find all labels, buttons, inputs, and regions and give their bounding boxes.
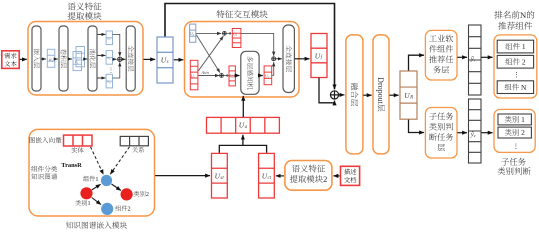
title: top-N recommended components [494, 11, 502, 19]
inner stack: U_t (red) bottom-left [190, 60, 198, 90]
svg-text:R: R [409, 95, 413, 100]
svg-text:ci: ci [75, 60, 78, 65]
cell row: entity embedding (red) [64, 135, 93, 146]
svg-text:sn: sn [107, 79, 111, 85]
wire: U_s -> multiply top (horizontal) [196, 32, 221, 34]
layer box: embedding layer [32, 26, 41, 91]
label: component 2 node [115, 205, 121, 210]
wire: s2 to adder [113, 58, 117, 60]
arrow: U_s -> feature interaction module [174, 59, 184, 61]
svg-text:Ut: Ut [191, 74, 195, 80]
svg-text:N: N [519, 83, 527, 92]
label: component classification knowledge graph (2 lines) [31, 166, 37, 172]
vector stack: y_r prediction [469, 25, 482, 95]
title: feature interaction module [216, 10, 224, 18]
wire: weighted U_t -> concat adder (right then down) [241, 33, 274, 55]
arrow: module 1 -> U_s [144, 58, 156, 60]
inner stack: weighted U_t (red) top [232, 29, 241, 48]
arrow: pooling -> s1 [98, 33, 106, 35]
graph node: category 1 (red) [80, 187, 92, 199]
wire: U_R bottom -> subtask layer [409, 120, 425, 133]
arrow: embedding -> w cells [42, 58, 46, 60]
module box 1: semantic feature extraction [28, 22, 143, 96]
arrow: category1 -> component1 [92, 184, 101, 190]
cell stack: feature maps back [76, 47, 85, 67]
wire: U_f bottom -> fusion adder [319, 78, 335, 103]
vector stack: U_ct [259, 153, 275, 198]
arrow: y_r -> top-N components box [481, 56, 492, 58]
junction dot bottom [226, 74, 228, 76]
concat adder circle (interaction) [272, 57, 276, 61]
svg-text:1: 1 [519, 115, 525, 124]
svg-text:⋮: ⋮ [512, 142, 519, 150]
vector stack: y_c prediction [469, 99, 482, 163]
svg-text:⋮: ⋮ [513, 71, 520, 79]
arrow: feature maps -> pooling layer [85, 58, 87, 60]
cell stack: s2 [106, 51, 112, 65]
svg-text:Uc: Uc [265, 73, 270, 79]
vector stack: U_a (horizontal) [207, 117, 280, 133]
arrow: w cells -> convolution layer [55, 58, 58, 60]
caption: knowledge graph embedding module [66, 222, 73, 229]
multiply circle bottom [220, 74, 224, 78]
arrow: category1 -> component2 [92, 198, 101, 205]
result box: recommended components [494, 35, 537, 98]
arrow: dropout layer -> U_R [389, 94, 398, 96]
box: multilayer perceptron [241, 51, 259, 94]
cell row: relation embedding [120, 136, 148, 145]
svg-text:2: 2 [323, 175, 327, 184]
item box: component N [497, 81, 533, 94]
label: entity [71, 147, 77, 153]
arrow: requirement text -> module 1 [20, 58, 27, 60]
arrow: recommendation task -> y_r stack [457, 56, 467, 58]
multiply circle top [223, 32, 227, 36]
arrow: fusion layer -> dropout layer [363, 94, 371, 96]
arrow: interaction module -> U_f [295, 58, 310, 60]
wire: U_R top -> recommendation task layer [409, 55, 425, 70]
arrow: description document -> semantic module 2 [333, 175, 339, 177]
svg-text:ct: ct [268, 176, 272, 181]
label: category 2 node [134, 191, 140, 197]
vector stack: U_s [157, 37, 173, 83]
input box: description document [341, 166, 360, 185]
vector stack: U_R [400, 71, 417, 119]
wire: sn to adder [113, 62, 120, 78]
arrow: U_a -> MLP (up into interaction module) [242, 96, 244, 117]
junction dot top [229, 32, 231, 34]
cell stack: feature maps front [73, 52, 82, 71]
layer box: dropout layer [373, 35, 389, 154]
arrow: pooling -> s2 [98, 54, 106, 56]
arrow: knowledge graph module -> U_st [155, 175, 210, 177]
cell stack: sn [106, 74, 112, 88]
layer box: convolution layer [59, 26, 68, 91]
wire: U_s bypass over the top to fusion adder [165, 4, 335, 90]
arrow: MLP -> output cells [260, 75, 263, 77]
svg-text:s: s [167, 60, 169, 65]
layer box: pooling layer [88, 26, 97, 91]
svg-text:1: 1 [520, 42, 526, 51]
dashed arrow: entity row -> component1 node [91, 147, 104, 175]
caption: subtask category judgement [501, 158, 509, 165]
arrow: concat -> fully connected (interaction) [276, 58, 282, 60]
task box: subtask category judgement task layer [425, 108, 457, 159]
adder circle in module 1 [118, 57, 122, 61]
graph node: component 2 (blue) [101, 203, 113, 215]
title: semantic feature extraction module (2 lines) [68, 2, 76, 10]
label: relation [132, 147, 138, 153]
svg-text:⋮: ⋮ [108, 68, 114, 74]
task box: industrial software component recommendation task layer [425, 30, 457, 80]
arrow: weighted U_s -> MLP [236, 75, 240, 77]
arrow: fusion adder -> fusion layer [339, 94, 345, 96]
cell stack: s1 [106, 31, 112, 45]
svg-text:1: 1 [95, 176, 98, 183]
module box: knowledge graph embedding [29, 129, 155, 216]
fusion adder circle [330, 91, 338, 99]
svg-text:Attn: Attn [200, 70, 209, 75]
graph node: category 2 (red) [121, 188, 133, 200]
layer box: fully connected layer (interaction module) [283, 25, 294, 93]
result box: categories [494, 109, 535, 152]
wire: MLP output -> concat adder from below [272, 62, 274, 75]
svg-text:Ut: Ut [233, 31, 237, 37]
graph node: component 1 (blue) [101, 175, 112, 186]
arrow: component1 -> category2 [112, 184, 121, 191]
svg-text:2: 2 [519, 128, 525, 137]
label: category 1 node [75, 200, 81, 206]
svg-text:s1: s1 [107, 35, 111, 41]
wire: U_st and U_ct merge into U_a [219, 145, 266, 153]
inner stack: U_s (blue) top-left [190, 24, 196, 42]
vector stack: U_f [311, 34, 327, 78]
svg-text:wi: wi [49, 58, 53, 63]
inner stack: MLP output (red) [264, 66, 272, 85]
wire: U_s -> multiply bottom (diagonal) [196, 35, 220, 73]
svg-text:1: 1 [87, 200, 90, 207]
svg-text:TransR: TransR [61, 162, 82, 169]
input box: requirement text (need text) [2, 51, 19, 69]
item box: category 2 [498, 127, 531, 138]
item box: category 1 [498, 114, 531, 125]
inner stack: weighted U_s (red) bottom [229, 66, 235, 86]
label: component 1 node [83, 176, 89, 181]
arrow: pooling -> sn [98, 77, 106, 79]
svg-text:Dropout: Dropout [376, 77, 385, 104]
layer box: fusion layer [346, 35, 363, 154]
svg-text:2: 2 [520, 57, 526, 66]
wire: U_t attention -> multiply bottom (horizontal) [198, 75, 219, 77]
arrow: subtask layer -> y_c stack [457, 132, 467, 134]
item box: component 2 [497, 55, 533, 68]
svg-text:s2: s2 [107, 55, 111, 61]
arrow: y_c -> categories box [481, 132, 492, 134]
arrow: semantic module 2 -> U_ct [276, 175, 284, 177]
dashed arrow: relation row -> component1 node [110, 147, 129, 174]
svg-text:N: N [520, 10, 527, 20]
wire: U_t -> multiply top (diagonal) [198, 36, 223, 71]
layer box: fully connected layer (module 1) [126, 26, 135, 91]
svg-text:2: 2 [128, 206, 131, 213]
module box 2: feature interaction [185, 22, 300, 98]
arrow: adder -> fully connected layer [122, 58, 125, 60]
item box: component 1 [497, 40, 533, 53]
arrow: convolution -> feature maps [69, 58, 72, 60]
vector stack: U_st [212, 153, 228, 198]
cell stack: word vectors w_i [47, 49, 55, 67]
wire: s1 to adder [113, 34, 120, 56]
module box: semantic feature extraction module 2 [285, 161, 332, 191]
label: graph embedding vector [29, 137, 34, 143]
svg-text:2: 2 [146, 191, 149, 198]
